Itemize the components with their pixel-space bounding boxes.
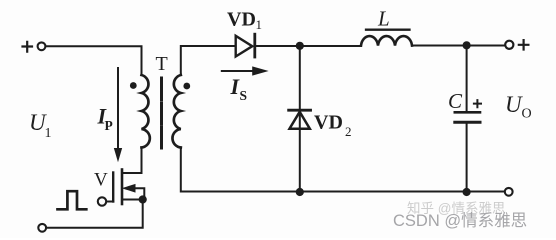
diode VD1 triangle <box>236 36 253 57</box>
node A junction dot (top of VD2) <box>296 42 304 50</box>
diode VD2 triangle <box>290 112 310 129</box>
capacitor plus mark <box>473 99 482 108</box>
svg-text:1: 1 <box>45 126 52 141</box>
current arrow IP <box>115 68 122 161</box>
capacitor C bottom plate <box>455 121 480 124</box>
svg-text:1: 1 <box>256 17 263 32</box>
MOSFET V : source lead <box>123 199 143 201</box>
transformer core <box>160 78 163 148</box>
output terminal circle (bottom-right) <box>505 188 513 196</box>
svg-text:S: S <box>240 88 248 103</box>
wire: input + to transformer primary top <box>46 46 142 74</box>
svg-text:C: C <box>448 89 463 113</box>
svg-text:VD: VD <box>314 112 343 134</box>
transformer T secondary winding <box>172 75 180 148</box>
wire: VD2 vertical <box>299 46 301 192</box>
MOSFET V : gate lead to drive terminal <box>107 201 114 203</box>
label VD1 <box>227 9 262 33</box>
MOSFET V : gate drive circle <box>98 197 106 205</box>
input plus sign (top-left) <box>23 42 33 52</box>
transformer polarity dot (secondary) <box>183 83 190 90</box>
node B junction dot (bottom of VD2) <box>296 188 304 196</box>
MOSFET V : gate bar <box>112 173 114 202</box>
wire: primary bottom to MOSFET drain <box>141 148 143 174</box>
svg-text:VD: VD <box>227 9 256 31</box>
transformer T primary winding <box>142 75 150 148</box>
gate drive pulse symbol <box>58 191 87 209</box>
current arrow IS <box>222 67 267 75</box>
MOSFET V : body lead with arrow <box>131 188 144 196</box>
label IS <box>230 74 248 103</box>
svg-text:T: T <box>156 53 168 75</box>
label U1 <box>29 110 52 141</box>
output plus sign (top-right) <box>519 40 529 49</box>
MOSFET V : channel bar <box>121 170 124 205</box>
input terminal circle (top-left) <box>38 42 46 50</box>
svg-text:2: 2 <box>345 124 352 139</box>
transformer polarity dot (primary) <box>130 82 137 89</box>
diode VD1 cathode bar <box>253 34 256 57</box>
wire: source down to bottom-left terminal <box>46 200 142 228</box>
wire: capacitor to bottom rail <box>466 124 468 192</box>
node D junction dot (bottom of capacitor) <box>463 188 471 196</box>
diode VD2 cathode bar <box>289 109 311 112</box>
wire: inductor to node C <box>412 45 505 47</box>
svg-text:V: V <box>94 170 108 191</box>
return terminal circle (bottom-left) <box>38 224 46 232</box>
inductor L core bar <box>366 29 410 31</box>
svg-text:CSDN @情系雅思: CSDN @情系雅思 <box>393 211 527 230</box>
inductor L winding <box>361 36 412 45</box>
MOSFET V : source junction dot <box>139 195 147 203</box>
svg-text:U: U <box>505 92 523 117</box>
output terminal circle (top-right) <box>505 41 513 49</box>
wire: VD1 to node A <box>256 45 361 47</box>
capacitor C top plate <box>455 111 480 114</box>
wire: secondary top to VD1 <box>181 46 235 75</box>
label UO <box>505 92 532 122</box>
wire: node C down to capacitor <box>466 45 468 111</box>
label VD2 <box>314 112 352 140</box>
svg-text:L: L <box>377 7 390 31</box>
MOSFET V : drain lead <box>123 172 142 174</box>
svg-text:P: P <box>105 118 113 133</box>
wire: secondary bottom to bottom rail <box>181 148 505 192</box>
svg-text:O: O <box>522 107 532 122</box>
node C junction dot (top of capacitor) <box>463 41 471 49</box>
label IP <box>97 104 113 134</box>
